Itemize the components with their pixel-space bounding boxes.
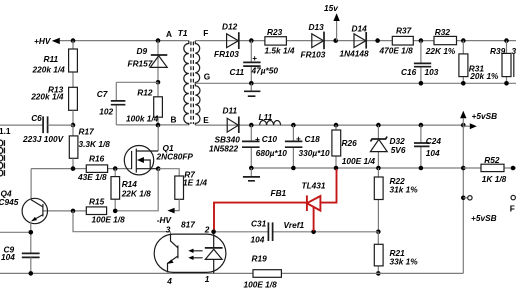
svg-text:R23: R23 — [267, 27, 283, 37]
svg-text:+: + — [255, 134, 260, 144]
resistor R13 — [30, 84, 77, 125]
svg-text:E: E — [203, 115, 209, 125]
svg-text:TL431: TL431 — [302, 180, 326, 190]
transistor Q4 C945 — [0, 169, 48, 224]
svg-text:R52: R52 — [484, 155, 500, 165]
capacitor C18 — [285, 125, 330, 168]
svg-text:D14: D14 — [352, 24, 368, 34]
junction C11 ground — [249, 81, 254, 86]
capacitor C24 — [414, 125, 441, 168]
diode D14 1N4148 — [340, 24, 369, 59]
svg-text:+HV: +HV — [34, 36, 52, 46]
svg-text:1.1: 1.1 — [0, 126, 11, 136]
svg-text:R26: R26 — [342, 138, 358, 148]
svg-text:3: 3 — [166, 224, 171, 234]
resistor R21 — [374, 232, 418, 274]
svg-text:20k 1%: 20k 1% — [469, 71, 499, 81]
wire secondary ground bus — [195, 82, 516, 84]
svg-text:680µ*10: 680µ*10 — [256, 148, 287, 158]
diode D13 FR103 — [301, 22, 326, 59]
svg-text:R14: R14 — [122, 179, 138, 189]
svg-text:FR103: FR103 — [214, 49, 239, 59]
wire red TL431 anode to 0V bus — [320, 169, 336, 203]
wire F rail — [195, 40, 516, 42]
svg-text:F: F — [510, 204, 515, 214]
svg-text:C6: C6 — [31, 113, 42, 123]
junction R11 top — [71, 38, 76, 43]
junction R16/R14/gate — [113, 166, 118, 171]
junction C16 ground — [419, 81, 424, 86]
svg-text:3.3K 1/8: 3.3K 1/8 — [79, 139, 111, 149]
capacitor C9 — [1, 245, 40, 274]
svg-text:31k 1%: 31k 1% — [390, 185, 419, 195]
mosfet Q1 2NC80FP — [115, 125, 193, 175]
optocoupler 817 body — [154, 220, 226, 273]
junction R15/R14 — [113, 209, 118, 214]
junction L11/C18 — [291, 123, 296, 128]
junction R26 bottom — [334, 166, 339, 171]
svg-text:+5vSB: +5vSB — [471, 213, 497, 223]
junction B node — [156, 123, 161, 128]
svg-text:D12: D12 — [222, 22, 238, 32]
opto phototransistor — [167, 234, 178, 272]
svg-text:330µ*10: 330µ*10 — [299, 148, 330, 158]
junction D32 bottom — [376, 166, 381, 171]
svg-text:R19: R19 — [252, 253, 268, 263]
svg-text:R12: R12 — [137, 88, 153, 98]
wire red TL431 ref stub — [313, 207, 315, 231]
junction R39 top — [504, 38, 509, 43]
shunt regulator TL431 FB1 — [271, 180, 326, 211]
svg-text:FR103: FR103 — [301, 50, 326, 60]
capacitor C7 — [97, 82, 158, 125]
svg-text:C945: C945 — [0, 197, 19, 207]
svg-text:FR157: FR157 — [128, 58, 153, 68]
svg-text:104: 104 — [426, 148, 440, 158]
resistor R37 — [379, 26, 414, 56]
resistor R22 — [374, 168, 418, 232]
edge component partial — [513, 54, 515, 77]
wire +5vSB vertical column — [462, 125, 464, 273]
ground secondary — [244, 83, 260, 96]
wire gate row — [31, 168, 115, 170]
junction R21 bottom — [376, 271, 381, 276]
svg-text:R11: R11 — [44, 54, 59, 64]
svg-text:C18: C18 — [305, 134, 321, 144]
resistor R7 — [158, 169, 207, 200]
junction Vref / R22 / R21 — [376, 230, 381, 235]
junction C24 bottom — [419, 166, 424, 171]
wire pin3 drive from R15 junction — [73, 211, 171, 234]
svg-text:L11: L11 — [259, 112, 273, 122]
resistor R12 — [126, 82, 162, 125]
svg-text:100E 1/8: 100E 1/8 — [92, 215, 126, 225]
junction opto pin 2 — [211, 230, 216, 235]
diode D12 FR103 — [214, 22, 239, 60]
wire red TL431 cathode to opto pin 2 — [214, 203, 307, 231]
junction Q4 base / R15 — [71, 209, 76, 214]
junction R13/R17/C6 — [71, 123, 76, 128]
edge connector marks — [0, 140, 4, 176]
svg-text:223J 100V: 223J 100V — [22, 134, 65, 144]
svg-text:1N4148: 1N4148 — [340, 49, 369, 59]
svg-text:D11: D11 — [223, 106, 238, 116]
svg-text:33k 1%: 33k 1% — [390, 257, 419, 267]
svg-text:C7: C7 — [97, 89, 108, 99]
zener D32 5V6 — [370, 125, 405, 168]
resistor R11 — [32, 41, 78, 88]
svg-text:22K 1/8: 22K 1/8 — [121, 189, 151, 199]
wire C6 left lead to edge — [0, 124, 43, 126]
junction +5vSB rail end — [461, 123, 466, 128]
terminal F open circle at edge — [510, 195, 516, 213]
resistor R32 — [425, 27, 457, 56]
node 15v arrow — [324, 3, 340, 41]
junction R26 top — [334, 123, 339, 128]
svg-text:103: 103 — [425, 67, 439, 77]
svg-text:C16: C16 — [401, 67, 417, 77]
svg-text:1N5822: 1N5822 — [209, 143, 238, 153]
capacitor C10 — [242, 125, 287, 168]
junction D14 cathode — [375, 38, 380, 43]
junction 15v tap — [333, 38, 338, 43]
junction R32/R31 — [461, 38, 466, 43]
ground 0V bus — [243, 168, 260, 181]
resistor R14 — [111, 169, 151, 211]
diode D9 FR157 — [128, 41, 168, 83]
wire bottom bus right of R19 — [281, 272, 463, 274]
svg-text:104: 104 — [1, 252, 15, 262]
junction Q1 source — [156, 166, 161, 171]
svg-text:R37: R37 — [396, 26, 412, 36]
junction R52 left — [461, 166, 466, 171]
svg-text:5V6: 5V6 — [391, 145, 406, 155]
svg-text:817: 817 — [181, 220, 195, 230]
wire R7 to -HV — [174, 199, 179, 210]
wire 0V bus — [251, 167, 463, 169]
junction +5vSB terminal tap — [461, 196, 466, 201]
resistor R16 — [77, 154, 108, 183]
svg-text:+5vSB: +5vSB — [472, 111, 498, 121]
junction D32 top — [376, 123, 381, 128]
svg-text:1E 1/4: 1E 1/4 — [183, 177, 207, 187]
junction D12 cathode / C11 — [249, 38, 254, 43]
junction C24 top — [419, 123, 424, 128]
capacitor C31 — [251, 218, 273, 244]
opto led — [205, 234, 223, 273]
svg-text:+: + — [252, 53, 257, 63]
svg-text:T1: T1 — [178, 28, 188, 38]
node +5vSB arrow right — [463, 123, 477, 129]
svg-text:220k 1/4: 220k 1/4 — [30, 92, 64, 102]
node +5vSB arrow up — [460, 111, 497, 125]
junction Q4 emitter — [29, 230, 34, 235]
transformer T1 — [178, 28, 200, 125]
svg-text:B: B — [171, 115, 177, 125]
junction D9 top on rail — [156, 38, 161, 43]
capacitor C16 — [401, 41, 439, 84]
wire emitter row to edge — [0, 231, 31, 233]
wire bottom bus left of R19 — [0, 272, 253, 274]
svg-text:47µ*50: 47µ*50 — [251, 66, 279, 76]
junction TL431 ref — [311, 230, 316, 235]
inductor L11 — [259, 112, 281, 125]
svg-text:R17: R17 — [79, 127, 95, 137]
svg-text:FB1: FB1 — [271, 188, 287, 198]
svg-text:R32: R32 — [435, 27, 451, 37]
junction D9 anode / R12 / C7 — [156, 80, 161, 85]
resistor R15 — [86, 197, 125, 225]
svg-text:2NC80FP: 2NC80FP — [156, 152, 194, 162]
svg-text:102: 102 — [99, 107, 113, 117]
svg-text:C10: C10 — [262, 134, 278, 144]
capacitor C6 — [22, 113, 73, 144]
svg-text:1K 1/8: 1K 1/8 — [482, 174, 507, 184]
svg-text:R15: R15 — [89, 197, 105, 207]
resistor R23 — [265, 27, 295, 55]
svg-text:D13: D13 — [309, 22, 325, 32]
junction R31 ground — [461, 81, 466, 86]
svg-text:+: + — [296, 134, 301, 144]
resistor R19 — [244, 253, 282, 289]
svg-text:100E 1/4: 100E 1/4 — [342, 156, 376, 166]
junction C10 bottom ground — [249, 166, 254, 171]
wire Q4 base row — [43, 210, 86, 212]
svg-text:220k 1/4: 220k 1/4 — [32, 65, 66, 75]
resistor R17 — [69, 125, 110, 169]
svg-text:F: F — [203, 28, 208, 38]
wire +HV top rail to transformer A — [60, 40, 189, 42]
wire E / +5vSB rail — [195, 124, 463, 126]
svg-text:D9: D9 — [137, 46, 148, 56]
junction R37/C16 — [419, 38, 424, 43]
svg-text:15v: 15v — [324, 3, 338, 13]
opto light arrows — [188, 249, 202, 260]
svg-text:470E 1/8: 470E 1/8 — [379, 46, 414, 56]
svg-text:104: 104 — [251, 234, 265, 244]
svg-text:C24: C24 — [426, 136, 442, 146]
wire B row C7 corner to transformer — [116, 124, 189, 126]
junction D11 cathode / C10 — [249, 123, 254, 128]
svg-text:100E 1/8: 100E 1/8 — [244, 279, 278, 289]
svg-text:2: 2 — [204, 224, 210, 234]
resistor R26 — [332, 125, 376, 168]
svg-text:100k 1/4: 100k 1/4 — [126, 113, 159, 123]
junction R17/R16/Q4 collector — [71, 166, 76, 171]
svg-text:Vref1: Vref1 — [284, 220, 305, 230]
diode D11 SB340 1N5822 — [209, 106, 240, 154]
svg-text:22K 1%: 22K 1% — [425, 46, 456, 56]
junction R39 ground — [504, 81, 509, 86]
svg-text:43E 1/8: 43E 1/8 — [77, 172, 107, 182]
svg-text:R39: R39 — [490, 46, 506, 56]
wire Vref row — [214, 231, 379, 233]
svg-text:G: G — [204, 72, 210, 82]
wire Q1 source return — [115, 169, 158, 211]
svg-text:1: 1 — [205, 274, 210, 284]
svg-text:A: A — [166, 29, 172, 39]
node -HV arrow — [157, 208, 175, 225]
capacitor C11 — [230, 41, 279, 84]
junction C9 bottom — [29, 271, 34, 276]
resistor R31 — [459, 41, 499, 84]
svg-text:R16: R16 — [89, 154, 105, 164]
junction R52 right — [511, 166, 516, 171]
resistor R52 — [463, 155, 516, 184]
svg-text:C31: C31 — [251, 218, 267, 228]
terminal +5vSB open circle — [463, 196, 496, 223]
resistor R39 — [490, 41, 516, 84]
svg-text:1.5k 1/4: 1.5k 1/4 — [265, 46, 295, 56]
svg-text:C11: C11 — [230, 67, 245, 77]
junction C18 bottom — [291, 166, 296, 171]
node +HV arrow — [34, 36, 60, 46]
wire Q4 emitter to C9 — [30, 222, 32, 254]
svg-text:4: 4 — [166, 276, 172, 286]
